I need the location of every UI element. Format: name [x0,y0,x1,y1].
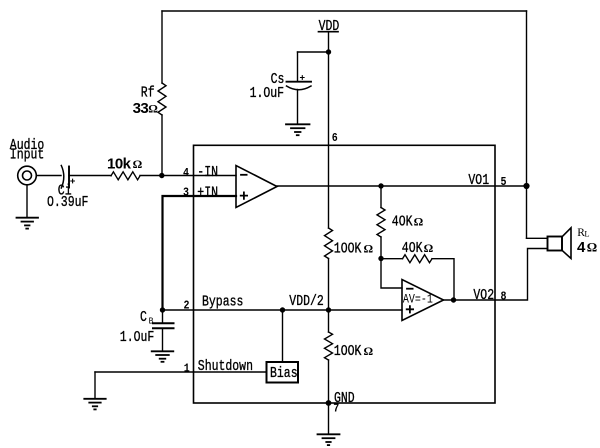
label CB 1.0uF [120,310,154,347]
label Ci 0.39uF [47,183,88,211]
svg-text:4: 4 [577,239,586,256]
svg-text:1OOK: 1OOK [334,344,362,361]
node VO1 junction [523,183,529,189]
wire Cs bottom lead [297,90,299,124]
IC box U1 package [194,145,496,403]
svg-text:5: 5 [501,176,507,189]
svg-text:8: 8 [501,291,507,304]
wire speaker top [527,237,548,239]
label 100K ohm lower [334,344,374,361]
wire connector to ground [26,185,28,217]
svg-text:AV=-1: AV=-1 [403,294,433,307]
wire to 40K horizontal [381,258,403,260]
svg-text:1: 1 [184,363,190,376]
svg-text:VDD/2: VDD/2 [289,294,323,311]
label VO2 pin 8 [473,288,506,305]
VDD symbol bar [319,31,339,33]
svg-text:Ω: Ω [364,344,374,358]
wire bias vertical [282,310,284,362]
label Shutdown pin 1 [184,359,253,376]
node bias tap [280,307,285,312]
wire 40K horizontal to output [432,259,454,300]
label 40K ohm vertical [392,214,424,231]
wire pin6 vertical VDD into IC [328,52,330,228]
svg-text:33: 33 [133,100,149,117]
wire top horizontal [162,10,527,12]
svg-text:Shutdown: Shutdown [198,359,253,376]
resistor 10k [111,172,140,180]
label VO1 pin 5 [468,173,506,190]
label Cs 1.0uF [250,72,285,103]
wire VDD stem [328,32,330,52]
wire Ci to 10k [69,175,111,177]
svg-text:1.OuF: 1.OuF [250,86,284,103]
wire CB bottom lead [162,329,164,351]
node GND [326,400,332,406]
capacitor Cs [287,76,312,90]
label 40K ohm horizontal [402,241,434,258]
svg-text:Input: Input [10,147,44,164]
wire +IN with vertical drop [163,196,237,310]
svg-text:4OK: 4OK [392,214,413,231]
wire op-amp U1 output VO1 [277,185,527,187]
label AV=-1 [403,294,433,307]
wire right vertical to speaker [526,11,528,238]
wire -IN [162,175,236,177]
svg-text:Ω: Ω [148,101,158,115]
svg-text:Ω: Ω [364,241,374,255]
svg-text:1OOK: 1OOK [334,241,362,258]
svg-text:4: 4 [183,167,189,180]
node VDD junction [326,49,331,54]
wire Cs top lead [297,52,299,81]
svg-text:+IN: +IN [197,185,218,202]
node feedback tap [378,183,383,188]
wire 100K to VDD/2 node [328,259,330,311]
label RL 4 ohm [577,227,597,256]
node bypass junction [160,307,165,312]
resistor 100K lower [325,332,333,360]
op-amp U2 [402,280,444,321]
svg-text:B: B [149,316,154,327]
speaker RL [548,228,572,259]
resistor 40K horizontal [403,255,433,263]
svg-text:Ω: Ω [424,241,434,255]
label Bias [270,366,298,383]
Bias block [267,362,299,383]
node VDD/2 [326,307,331,312]
label 10k ohm [107,156,143,173]
resistor Rf [158,83,166,115]
label VDD [319,19,340,36]
wire VDD to Cs [298,51,329,53]
wire bypass horizontal [163,309,403,311]
svg-text:-IN: -IN [197,165,218,182]
svg-text:Ω: Ω [414,214,424,228]
wire Rf top lead [161,11,163,83]
ground (GND) [318,434,340,445]
ground (shutdown) [84,399,105,410]
ground (audio input) [17,218,39,229]
label Bypass pin 2 [184,294,244,312]
wire connector to Ci [36,175,61,177]
svg-text:3: 3 [183,187,189,200]
capacitor Ci [61,166,74,189]
label 100K ohm upper [334,241,374,258]
wire VO2 output [444,249,548,301]
capacitor CB [153,323,174,328]
wire 40K vertical bottom lead [380,237,382,259]
wire CB top lead [162,310,164,323]
svg-text:10k: 10k [107,156,132,173]
label +IN pin 3 [183,185,218,202]
wire shutdown [95,371,267,373]
svg-text:1.OuF: 1.OuF [120,330,154,347]
wire 100K lower to GND [328,360,330,403]
wire shutdown ground lead [94,372,96,398]
svg-text:Bias: Bias [270,366,298,383]
node inverting node U2 [378,256,383,261]
audio input connector J1 [18,166,37,185]
label VDD/2 [289,294,323,311]
svg-text:6: 6 [332,132,338,145]
svg-text:2: 2 [184,300,190,313]
label Audio Input [10,138,44,165]
label -IN pin 4 [183,165,218,182]
wire 10k to node A [140,175,162,177]
node U2 output [451,297,456,302]
resistor 100K upper [325,228,333,259]
resistor 40K vertical [377,208,385,238]
svg-text:O.39uF: O.39uF [47,195,88,212]
wire 40K vertical top lead [380,186,382,208]
svg-text:Ω: Ω [587,240,597,255]
ground (Cs) [286,124,310,135]
svg-text:VO2: VO2 [473,288,494,305]
svg-text:7: 7 [333,403,339,416]
wire Rf bottom lead [161,115,163,176]
label GND pin 7 [333,391,354,416]
svg-text:C: C [140,310,147,327]
op-amp U1 [236,166,277,208]
ground (CB) [152,351,174,362]
wire inverting input U2 [381,259,402,289]
svg-text:4OK: 4OK [402,241,423,258]
svg-text:Ω: Ω [133,157,143,171]
label Rf 33 ohm [133,85,159,117]
svg-text:L: L [584,229,589,239]
node A input junction [159,173,164,178]
svg-text:VO1: VO1 [468,173,489,190]
label pin 6 [332,132,338,145]
svg-text:Bypass: Bypass [202,294,243,311]
wire GND ground lead [328,403,330,434]
wire VDD/2 to 100K lower [328,310,330,332]
